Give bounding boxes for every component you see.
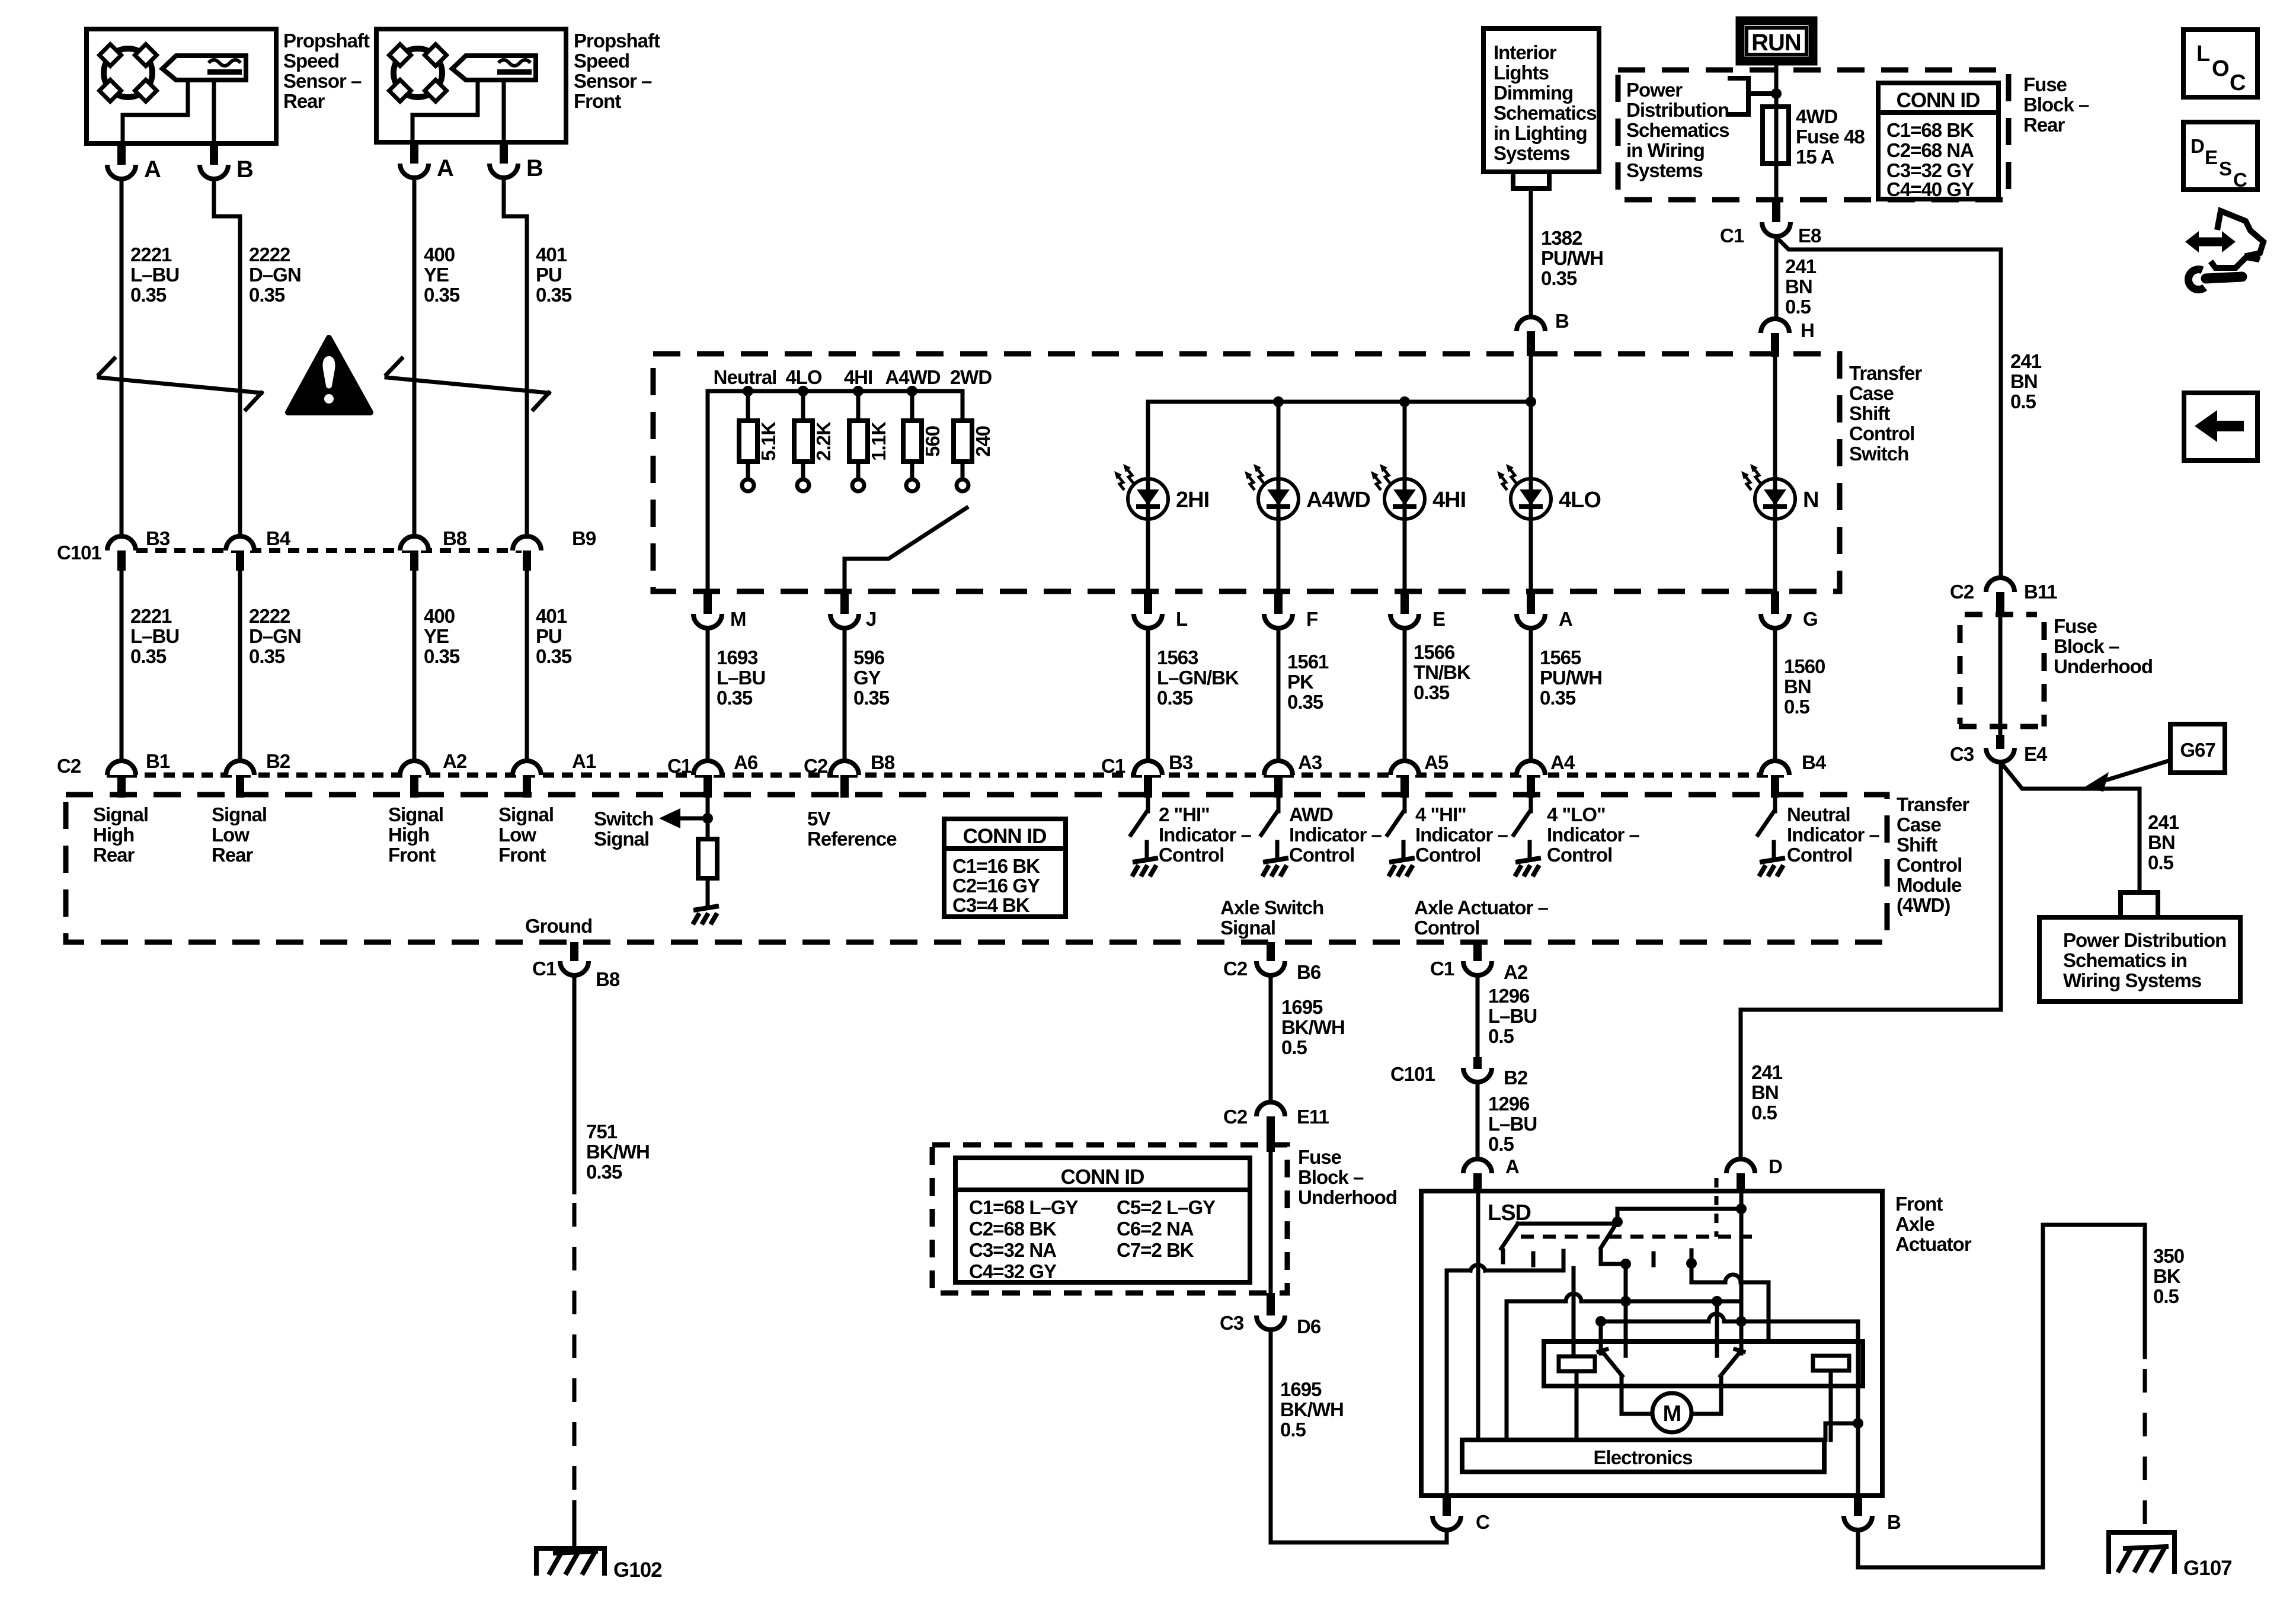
svg-text:400: 400 — [424, 605, 455, 627]
svg-text:C4=40 GY: C4=40 GY — [1886, 178, 1974, 200]
svg-text:Underhood: Underhood — [1298, 1186, 1397, 1208]
junction dot lever right top — [1612, 1217, 1623, 1227]
svg-text:Reference: Reference — [807, 828, 897, 850]
svg-text:C1: C1 — [1430, 958, 1454, 980]
junction dot V2743 on H2196 — [1620, 1296, 1631, 1307]
connector B1 — [107, 761, 136, 775]
svg-text:Ground: Ground — [525, 915, 592, 937]
svg-text:C3: C3 — [1950, 743, 1974, 765]
LSD lever bar — [1518, 1222, 1617, 1226]
wire M inside box — [706, 391, 710, 591]
relay coil left — [1559, 1356, 1595, 1371]
wire E11 to D6 through fuse block — [1269, 1152, 1273, 1293]
svg-text:Wiring Systems: Wiring Systems — [2063, 969, 2201, 991]
connector B8 — [400, 536, 428, 550]
svg-text:Power: Power — [1626, 79, 1683, 101]
wire E4 to power distribution bottom — [2001, 763, 2140, 890]
connector G — [1761, 614, 1789, 628]
wire 1563 — [1146, 628, 1150, 761]
interior lights dimming schematics box — [1483, 28, 1599, 172]
interrupt mark right pair — [386, 359, 402, 375]
svg-text:241: 241 — [2010, 350, 2042, 372]
svg-text:M: M — [730, 608, 746, 630]
wire 751 dashed — [573, 1203, 577, 1502]
wires inside front sensor box — [412, 80, 478, 142]
svg-text:Case: Case — [1897, 814, 1942, 836]
svg-text:751: 751 — [586, 1121, 618, 1142]
svg-text:D: D — [1769, 1156, 1782, 1177]
connector B6 — [1256, 961, 1285, 975]
svg-text:Fuse: Fuse — [2023, 73, 2067, 95]
svg-text:0.35: 0.35 — [1541, 267, 1577, 289]
svg-text:A5: A5 — [1424, 751, 1448, 773]
LSD contact stub 2 — [1531, 1253, 1536, 1265]
svg-text:L–BU: L–BU — [717, 667, 765, 689]
svg-text:L–BU: L–BU — [1488, 1113, 1537, 1135]
svg-text:0.35: 0.35 — [536, 645, 572, 667]
svg-text:Rear: Rear — [2023, 114, 2065, 136]
svg-text:B8: B8 — [596, 968, 620, 990]
connector B8 module — [830, 761, 859, 775]
svg-text:BK/WH: BK/WH — [586, 1141, 650, 1163]
svg-text:1561: 1561 — [1287, 651, 1329, 673]
svg-text:Axle Actuator –: Axle Actuator – — [1414, 897, 1548, 918]
svg-text:0.35: 0.35 — [853, 687, 890, 709]
LSD contact stub 6 — [1691, 1250, 1725, 1282]
connector B rear — [200, 165, 228, 179]
pin C1 ground — [570, 942, 578, 961]
svg-text:4WD: 4WD — [1796, 105, 1838, 127]
svg-text:Fuse 48: Fuse 48 — [1796, 126, 1865, 148]
pin C actuator — [1443, 1496, 1451, 1516]
svg-text:C2: C2 — [1950, 581, 1974, 603]
neutral indicator switch — [1758, 795, 1785, 876]
svg-text:0.5: 0.5 — [1784, 696, 1810, 718]
junction dot electronics B riser — [1853, 1418, 1863, 1429]
junction dot A6 — [702, 813, 713, 824]
svg-text:Rear: Rear — [283, 90, 325, 112]
svg-text:1563: 1563 — [1157, 646, 1198, 668]
svg-text:High: High — [388, 824, 429, 846]
svg-text:D6: D6 — [1297, 1315, 1321, 1337]
svg-text:2WD: 2WD — [950, 366, 992, 388]
propshaft speed sensor rear box — [87, 29, 276, 143]
LSD lever right — [1601, 1222, 1617, 1248]
connector F — [1264, 614, 1293, 628]
svg-text:Case: Case — [1849, 382, 1894, 404]
svg-text:BK: BK — [2153, 1265, 2181, 1287]
svg-text:Fuse: Fuse — [2054, 615, 2097, 637]
connector A switch — [1517, 614, 1545, 628]
svg-text:0.35: 0.35 — [249, 645, 285, 667]
svg-text:C1: C1 — [532, 958, 557, 980]
LED bus wire — [1148, 400, 1531, 404]
junction dot stub6 — [1686, 1258, 1697, 1269]
svg-text:Module: Module — [1897, 874, 1962, 896]
svg-text:C2=16 GY: C2=16 GY — [952, 875, 1040, 897]
svg-text:Signal: Signal — [212, 804, 267, 825]
svg-text:BN: BN — [2010, 370, 2038, 392]
svg-text:241: 241 — [1751, 1061, 1783, 1083]
connector B9 — [513, 536, 541, 550]
svg-text:Schematics in: Schematics in — [2063, 949, 2187, 971]
wire 1296 lower — [1476, 1083, 1480, 1159]
svg-text:CONN ID: CONN ID — [963, 825, 1047, 848]
svg-text:Indicator –: Indicator – — [1159, 824, 1252, 846]
pin A front — [410, 142, 418, 164]
wire 751 solid upper — [573, 976, 577, 1192]
svg-text:YE: YE — [424, 625, 449, 647]
svg-text:CONN ID: CONN ID — [1897, 89, 1980, 112]
svg-text:Dimming: Dimming — [1494, 82, 1573, 104]
connector C actuator — [1432, 1516, 1461, 1530]
svg-text:O: O — [2212, 56, 2229, 81]
svg-text:0.5: 0.5 — [1488, 1025, 1514, 1047]
front axle actuator box — [1421, 1191, 1882, 1496]
connector row dashed line C101 — [136, 548, 522, 553]
connector L — [1134, 614, 1162, 628]
svg-text:B3: B3 — [1169, 751, 1193, 773]
svg-text:4 "LO": 4 "LO" — [1547, 804, 1606, 825]
svg-text:M: M — [1663, 1401, 1681, 1426]
wire motor right — [1691, 1412, 1721, 1416]
svg-text:B: B — [526, 155, 543, 181]
svg-text:PK: PK — [1287, 671, 1314, 693]
svg-text:G67: G67 — [2180, 739, 2215, 761]
wire 596 — [843, 628, 847, 761]
svg-text:A1: A1 — [572, 750, 596, 772]
svg-text:Speed: Speed — [283, 50, 339, 72]
wire V2897 contact — [1715, 1301, 1719, 1356]
svg-text:Signal: Signal — [93, 804, 148, 825]
shift lever pictograph — [2185, 211, 2263, 290]
svg-text:Switch: Switch — [1849, 443, 1908, 465]
pin B2 inline — [1473, 1057, 1482, 1069]
svg-text:E8: E8 — [1798, 225, 1821, 247]
svg-text:1296: 1296 — [1488, 985, 1530, 1007]
connector M — [693, 614, 722, 628]
svg-text:TN/BK: TN/BK — [1414, 661, 1471, 683]
svg-text:1382: 1382 — [1541, 227, 1582, 249]
svg-text:D–GN: D–GN — [249, 625, 301, 647]
connector E — [1390, 614, 1419, 628]
wire 1296 upper — [1476, 976, 1480, 1057]
svg-text:0.35: 0.35 — [1157, 687, 1193, 709]
electronics bar — [1462, 1440, 1824, 1472]
LED 4HI — [1371, 464, 1425, 519]
4LO indicator switch — [1514, 795, 1541, 876]
wire 1695 upper — [1269, 976, 1273, 1102]
svg-text:L–BU: L–BU — [130, 264, 179, 286]
svg-text:Neutral: Neutral — [714, 366, 777, 388]
svg-text:0.5: 0.5 — [2010, 391, 2036, 412]
svg-text:Signal: Signal — [594, 828, 649, 850]
svg-text:0.5: 0.5 — [1281, 1036, 1307, 1058]
svg-text:L: L — [1176, 608, 1188, 630]
wire fuse to E8 — [1774, 164, 1779, 201]
svg-text:C1=68 L–GY: C1=68 L–GY — [969, 1196, 1079, 1218]
svg-text:Block –: Block – — [2054, 635, 2119, 657]
LSD mechanical link vertical dashed — [1715, 1178, 1719, 1237]
svg-text:0.35: 0.35 — [424, 645, 460, 667]
wire 241 to D — [1741, 762, 2001, 1159]
wire coil left down — [1575, 1371, 1579, 1440]
svg-text:1560: 1560 — [1784, 655, 1825, 677]
svg-text:BN: BN — [1785, 276, 1812, 297]
svg-text:Underhood: Underhood — [2054, 655, 2153, 677]
svg-text:C: C — [1476, 1511, 1489, 1533]
wire A inside actuator — [1476, 1191, 1480, 1440]
wire E8 branch to B11 — [1777, 238, 2001, 576]
wire H2230 — [1601, 1320, 1709, 1324]
svg-text:2.2K: 2.2K — [813, 421, 834, 461]
fuse block underhood small dashed box — [1965, 612, 2037, 617]
svg-text:BK/WH: BK/WH — [1280, 1398, 1344, 1420]
LED A4WD — [1245, 464, 1299, 519]
svg-text:0.35: 0.35 — [424, 284, 460, 306]
svg-text:Rear: Rear — [212, 844, 254, 866]
connector E4 — [1986, 748, 2014, 762]
svg-text:C1: C1 — [1101, 755, 1125, 777]
svg-text:4HI: 4HI — [844, 366, 872, 388]
wire 1695 lower — [1271, 1330, 1447, 1542]
LOC icon — [2183, 30, 2257, 97]
connector A1 — [513, 761, 541, 775]
svg-text:Control: Control — [1415, 844, 1480, 866]
sensor coil icon rear — [100, 44, 157, 102]
switch wiper arm — [845, 508, 967, 591]
svg-text:Speed: Speed — [574, 50, 629, 72]
relay coil right — [1813, 1356, 1849, 1371]
ground switch signal — [693, 906, 719, 924]
svg-text:B: B — [236, 156, 253, 183]
LSD contact stub 1 — [1501, 1250, 1505, 1262]
junction dots on LED bus — [1273, 396, 1284, 407]
svg-text:C3=4 BK: C3=4 BK — [952, 894, 1030, 916]
svg-text:400: 400 — [424, 244, 455, 265]
connector A front — [400, 164, 428, 178]
svg-text:in Lighting: in Lighting — [1494, 122, 1587, 144]
svg-text:G102: G102 — [613, 1558, 662, 1582]
wire 1565 — [1529, 628, 1533, 761]
svg-text:240: 240 — [972, 426, 994, 457]
svg-text:Transfer: Transfer — [1849, 362, 1922, 384]
pin M — [703, 591, 712, 614]
svg-text:1693: 1693 — [717, 646, 758, 668]
svg-text:Propshaft: Propshaft — [574, 30, 660, 52]
svg-text:B6: B6 — [1297, 961, 1321, 983]
svg-text:0.5: 0.5 — [1280, 1419, 1306, 1441]
svg-text:B2: B2 — [1504, 1067, 1528, 1089]
wire D node inside actuator — [1617, 1191, 1741, 1222]
connector H — [1761, 319, 1789, 333]
svg-text:High: High — [93, 824, 134, 846]
wire B inside actuator — [1856, 1321, 1860, 1496]
svg-text:0.5: 0.5 — [2153, 1285, 2179, 1307]
svg-text:Control: Control — [1897, 854, 1962, 876]
LED 4HI wires — [1403, 402, 1407, 479]
svg-text:B9: B9 — [572, 527, 596, 549]
svg-text:1695: 1695 — [1281, 996, 1323, 1018]
svg-text:Sensor –: Sensor – — [283, 70, 362, 92]
wire 1560 — [1773, 628, 1777, 761]
bracket power distribution note — [1730, 78, 1748, 114]
svg-text:2221: 2221 — [130, 244, 172, 265]
svg-text:0.35: 0.35 — [249, 284, 285, 306]
RUN box — [1740, 21, 1813, 61]
svg-text:AWD: AWD — [1289, 804, 1333, 825]
wire motor left — [1622, 1412, 1652, 1416]
svg-text:2221: 2221 — [130, 605, 172, 627]
svg-text:0.35: 0.35 — [1540, 687, 1576, 709]
pin D6 — [1267, 1293, 1275, 1315]
svg-text:5V: 5V — [807, 808, 830, 830]
svg-text:L: L — [2196, 41, 2210, 66]
transfer case shift control switch dashed box — [653, 354, 1840, 591]
svg-text:Control: Control — [1289, 844, 1354, 866]
svg-text:A: A — [437, 155, 453, 181]
4HI indicator switch — [1387, 795, 1415, 876]
wire V2937 main — [1739, 1209, 1744, 1321]
resistor R-4HI 1.1K — [856, 391, 861, 421]
ground G107 — [2109, 1532, 2175, 1571]
hump H2164 over V2937 — [1725, 1275, 1741, 1282]
svg-text:C101: C101 — [57, 542, 102, 564]
svg-text:Interior: Interior — [1494, 41, 1557, 63]
svg-text:C2: C2 — [804, 755, 828, 777]
svg-text:BK/WH: BK/WH — [1281, 1016, 1345, 1038]
pin A rear — [117, 143, 126, 165]
LSD contact stub 4 — [1601, 1250, 1626, 1264]
bracket above power distribution box — [2121, 892, 2158, 917]
G67 box — [2170, 724, 2225, 773]
svg-text:0.35: 0.35 — [1287, 691, 1323, 713]
resistor ladder bus wire — [708, 391, 962, 421]
svg-text:C2: C2 — [1223, 958, 1248, 980]
svg-text:L–BU: L–BU — [1488, 1005, 1537, 1027]
svg-text:Axle: Axle — [1895, 1213, 1934, 1235]
resistor switch signal pulldown — [698, 839, 717, 878]
svg-text:4LO: 4LO — [1559, 488, 1601, 513]
svg-text:1.1K: 1.1K — [868, 421, 890, 461]
svg-text:Propshaft: Propshaft — [283, 30, 370, 52]
svg-text:2HI: 2HI — [1176, 488, 1209, 513]
svg-text:Indicator –: Indicator – — [1547, 824, 1640, 846]
wire 400 upper — [412, 178, 417, 536]
wire H2196 — [1507, 1299, 1566, 1304]
svg-text:Indicator –: Indicator – — [1787, 824, 1880, 846]
svg-text:Control: Control — [1414, 917, 1479, 939]
wire through fuse block underhood — [1998, 614, 2003, 735]
wire A6 to resistor — [706, 795, 710, 839]
svg-text:Low: Low — [498, 824, 536, 846]
svg-text:PU/WH: PU/WH — [1540, 667, 1602, 689]
wire 350 dashed — [2143, 1369, 2147, 1531]
svg-text:C2=68 BK: C2=68 BK — [969, 1218, 1057, 1240]
svg-text:C1: C1 — [1720, 225, 1744, 247]
svg-text:C2: C2 — [1223, 1106, 1248, 1128]
wire electronics to B riser — [1825, 1423, 1858, 1440]
wire 401 lower — [525, 571, 529, 761]
G67 arrow — [2103, 760, 2170, 781]
svg-text:Sensor –: Sensor – — [574, 70, 652, 92]
wires inside rear sensor box — [123, 80, 188, 143]
svg-text:C3=32 NA: C3=32 NA — [969, 1239, 1056, 1261]
svg-text:241: 241 — [1785, 255, 1817, 277]
svg-text:C7=2 BK: C7=2 BK — [1117, 1239, 1194, 1261]
junction dot stub4 — [1620, 1259, 1631, 1269]
svg-text:C6=2 NA: C6=2 NA — [1117, 1218, 1194, 1240]
svg-text:Power Distribution: Power Distribution — [2063, 929, 2226, 951]
svg-text:0.35: 0.35 — [130, 645, 167, 667]
svg-text:Fuse: Fuse — [1298, 1146, 1342, 1168]
svg-text:B1: B1 — [146, 750, 170, 772]
svg-text:B3: B3 — [146, 527, 170, 549]
svg-text:D: D — [2191, 135, 2204, 157]
svg-text:4 "HI": 4 "HI" — [1415, 804, 1466, 825]
connector B actuator — [1844, 1516, 1872, 1530]
junction dot run wire — [1771, 88, 1782, 99]
svg-text:A: A — [1559, 608, 1572, 630]
wire RUN to fuse — [1774, 66, 1779, 107]
svg-text:BN: BN — [1784, 676, 1811, 697]
connector A3 — [1264, 761, 1293, 775]
LSD contact stub 5 — [1652, 1253, 1656, 1265]
svg-text:Control: Control — [1849, 422, 1914, 444]
svg-text:Control: Control — [1787, 844, 1852, 866]
svg-text:0.5: 0.5 — [1751, 1102, 1777, 1124]
connector B4 module — [1761, 761, 1789, 775]
svg-text:B2: B2 — [266, 750, 290, 772]
svg-text:Shift: Shift — [1897, 834, 1937, 856]
pin F — [1274, 591, 1283, 614]
svg-text:(4WD): (4WD) — [1897, 894, 1950, 916]
svg-text:C4=32 GY: C4=32 GY — [969, 1260, 1057, 1282]
pin J — [840, 591, 849, 614]
svg-text:A4WD: A4WD — [1306, 488, 1370, 513]
wire 2221 upper — [120, 179, 124, 536]
svg-text:Transfer: Transfer — [1897, 793, 1969, 815]
DESC icon — [2183, 122, 2257, 190]
svg-text:B: B — [1887, 1511, 1901, 1533]
svg-text:Low: Low — [212, 824, 250, 846]
svg-text:Front: Front — [1895, 1193, 1943, 1215]
svg-text:B4: B4 — [1802, 751, 1827, 773]
junction dots on resistor bus — [743, 386, 753, 396]
svg-text:Systems: Systems — [1494, 142, 1570, 164]
svg-text:A2: A2 — [443, 750, 467, 772]
svg-text:Block –: Block – — [2023, 94, 2089, 116]
pin E4 — [1996, 735, 2004, 749]
connector B3 — [107, 536, 136, 550]
svg-text:N: N — [1803, 488, 1818, 513]
wire 2222 upper — [214, 179, 240, 536]
svg-text:C: C — [2230, 71, 2246, 95]
sensor plug icon front — [452, 56, 536, 80]
svg-text:B: B — [1555, 310, 1569, 332]
svg-text:Axle Switch: Axle Switch — [1220, 897, 1323, 918]
pin A2 actuator feed — [1473, 942, 1482, 961]
svg-text:2222: 2222 — [249, 605, 290, 627]
LED A4WD wires — [1277, 402, 1281, 479]
wire lever pivot left — [1599, 1321, 1603, 1353]
junction dot H2230 left — [1595, 1316, 1606, 1327]
LED 4LO — [1497, 464, 1551, 519]
svg-text:PU/WH: PU/WH — [1541, 247, 1603, 269]
svg-text:A: A — [144, 156, 161, 183]
svg-text:1296: 1296 — [1488, 1093, 1530, 1115]
svg-text:in Wiring: in Wiring — [1626, 139, 1705, 161]
